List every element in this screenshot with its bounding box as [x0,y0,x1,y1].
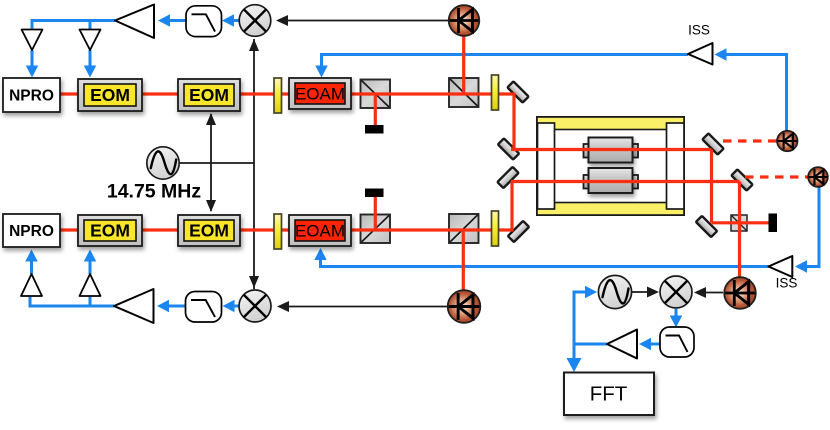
svg-text:EOM: EOM [189,221,229,241]
svg-text:NPRO: NPRO [9,223,54,240]
svg-text:ISS: ISS [776,276,798,291]
svg-text:FFT: FFT [590,383,628,406]
svg-text:14.75 MHz: 14.75 MHz [107,181,202,203]
svg-text:EOM: EOM [90,85,130,105]
svg-text:EOAM: EOAM [295,85,345,104]
svg-text:ISS: ISS [688,23,710,38]
svg-text:EOAM: EOAM [295,222,345,241]
svg-text:EOM: EOM [189,85,229,105]
svg-text:NPRO: NPRO [9,88,54,105]
svg-text:EOM: EOM [90,221,130,241]
